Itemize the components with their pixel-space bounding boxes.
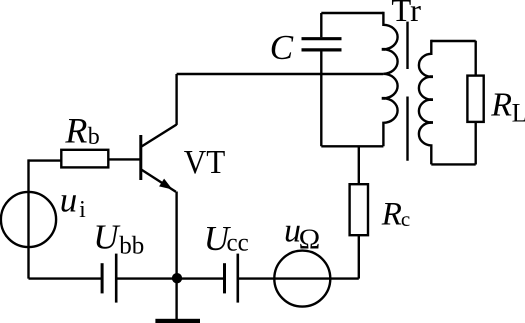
- junction dot: [172, 273, 182, 283]
- svg-text:Tr: Tr: [391, 0, 421, 28]
- svg-text:b: b: [88, 124, 100, 150]
- label U_bb: [93, 218, 144, 260]
- wire collector vertical: [175, 74, 177, 125]
- wire R_L branch upper: [475, 41, 477, 76]
- wire secondary bottom: [431, 163, 475, 165]
- wire right vertical below R_c: [358, 235, 360, 278]
- svg-text:VT: VT: [184, 144, 226, 181]
- wire R_c to tank bottom: [358, 146, 360, 184]
- wire emitter vertical: [175, 192, 177, 320]
- transformer core: [406, 22, 408, 161]
- wire tank bottom: [321, 145, 383, 147]
- wire R_L branch lower: [475, 122, 477, 165]
- transistor VT: [141, 125, 177, 192]
- svg-text:cc: cc: [227, 229, 249, 256]
- svg-text:R: R: [490, 87, 512, 124]
- svg-text:Ω: Ω: [299, 223, 321, 255]
- wire top-left horizontal to R_b: [29, 159, 62, 161]
- inductor primary winding of Tr: [382, 12, 398, 147]
- resistor R_b: [61, 150, 108, 168]
- voltage source u_i: [1, 192, 56, 247]
- svg-text:U: U: [93, 218, 121, 257]
- wire left vertical (input branch): [27, 159, 29, 278]
- label u_i: [60, 181, 86, 224]
- label R_c: [381, 197, 410, 233]
- resistor R_L: [467, 76, 483, 122]
- svg-text:R: R: [381, 197, 402, 233]
- battery U_cc: [225, 254, 238, 303]
- ground: [155, 319, 200, 323]
- wire R_b to base: [108, 158, 140, 160]
- svg-text:L: L: [512, 98, 525, 127]
- label u_omega: [284, 213, 320, 256]
- wire capacitor branch upper: [320, 13, 322, 37]
- capacitor C: [302, 39, 342, 50]
- wire bottom segment 3: [238, 277, 359, 279]
- resistor R_c: [350, 184, 368, 235]
- label R_b: [64, 111, 99, 151]
- source u_omega: [274, 251, 330, 307]
- svg-text:u: u: [60, 181, 78, 220]
- wire bottom segment 2: [116, 277, 224, 279]
- label R_L: [490, 87, 525, 128]
- wire secondary top: [431, 40, 475, 43]
- inductor secondary winding of Tr: [419, 40, 433, 165]
- wire tank top: [321, 12, 383, 14]
- svg-text:R: R: [64, 111, 87, 151]
- svg-text:i: i: [79, 197, 86, 223]
- svg-text:bb: bb: [119, 233, 144, 260]
- label U_cc: [204, 219, 249, 258]
- svg-text:c: c: [401, 207, 410, 231]
- battery U_bb: [102, 254, 116, 303]
- wire capacitor branch lower: [320, 51, 322, 146]
- wire collector horizontal to coil tap: [177, 73, 384, 75]
- svg-text:C: C: [270, 28, 294, 67]
- wire bottom segment 1: [29, 277, 103, 279]
